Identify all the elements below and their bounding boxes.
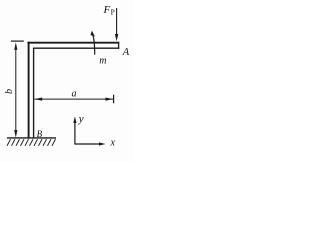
svg-text:b: b	[4, 89, 15, 94]
svg-text:a: a	[72, 89, 77, 100]
svg-text:B: B	[37, 129, 43, 139]
svg-text:x: x	[110, 138, 116, 149]
svg-text:A: A	[122, 47, 130, 58]
svg-text:P: P	[111, 8, 115, 17]
svg-text:y: y	[78, 113, 84, 125]
svg-text:F: F	[103, 4, 111, 16]
svg-text:m: m	[99, 56, 106, 67]
